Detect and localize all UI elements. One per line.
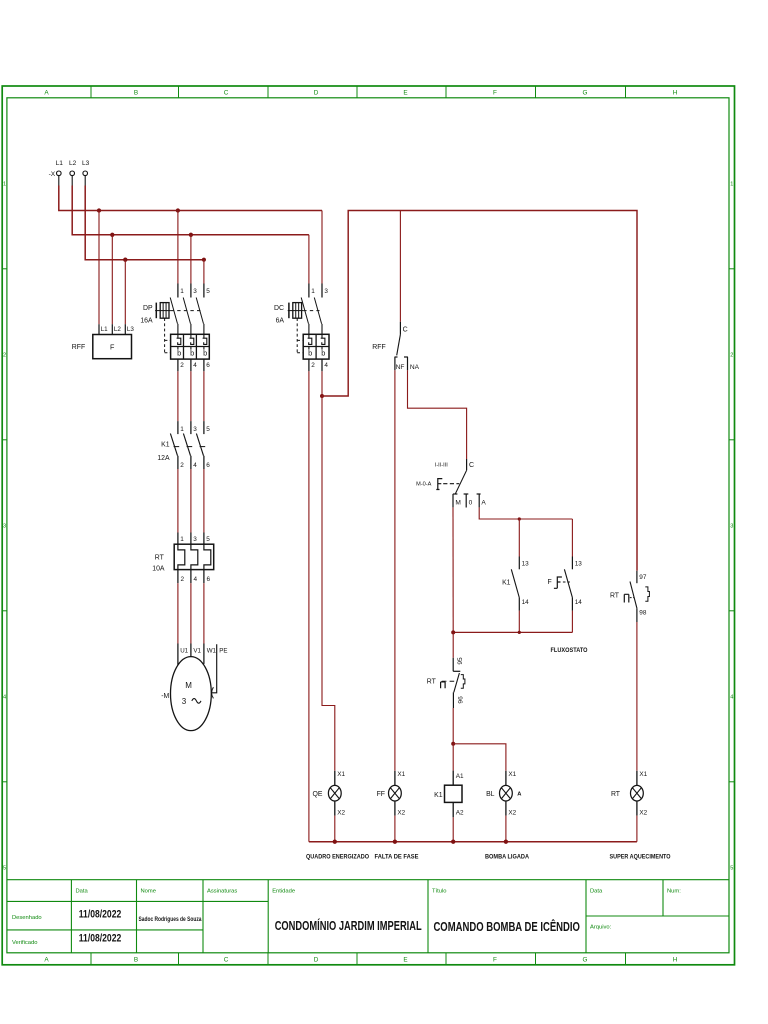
svg-text:0: 0 bbox=[469, 499, 473, 506]
svg-text:13: 13 bbox=[522, 561, 530, 568]
wire L3 drop to RFF relay bbox=[124, 260, 126, 325]
svg-text:C: C bbox=[224, 90, 229, 97]
svg-text:V1: V1 bbox=[193, 647, 201, 654]
lamp QE quadro energizado bbox=[313, 771, 346, 842]
contact RT 97-98 trip signal bbox=[624, 571, 649, 622]
svg-text:K1: K1 bbox=[502, 580, 511, 587]
svg-text:X2: X2 bbox=[508, 809, 516, 816]
label -M bbox=[161, 693, 169, 700]
lamp FF falta de fase bbox=[377, 771, 406, 842]
svg-text:3: 3 bbox=[730, 523, 733, 529]
terminal block -X labels L1 L2 L3 bbox=[49, 160, 90, 178]
label K1 contact bbox=[502, 580, 511, 587]
title block date verified bbox=[79, 933, 122, 945]
wire bottom lamp bus bbox=[309, 841, 637, 843]
contactor K1 12A main contacts bbox=[170, 421, 210, 469]
svg-text:NA: NA bbox=[410, 364, 420, 371]
svg-text:C: C bbox=[224, 957, 229, 964]
wire seal-in bus bbox=[453, 631, 572, 633]
wire L1 phase bus bbox=[59, 186, 322, 211]
svg-text:M-0-A: M-0-A bbox=[416, 481, 431, 487]
svg-text:B: B bbox=[134, 90, 138, 97]
wire to K1 coil bbox=[452, 744, 454, 771]
svg-text:b: b bbox=[203, 349, 207, 358]
svg-text:Num:: Num: bbox=[667, 888, 681, 894]
svg-text:X1: X1 bbox=[337, 771, 345, 778]
svg-text:X1: X1 bbox=[508, 771, 516, 778]
svg-text:Entidade: Entidade bbox=[272, 888, 295, 894]
label RFF contact bbox=[372, 344, 385, 351]
svg-text:b: b bbox=[321, 349, 325, 358]
wire DC pin2 return to lamp bus bbox=[308, 371, 310, 841]
junction L3-RFF bbox=[123, 258, 127, 262]
junction L1-DP bbox=[176, 208, 180, 212]
svg-text:3: 3 bbox=[324, 288, 328, 295]
svg-text:W1: W1 bbox=[207, 647, 217, 654]
svg-text:10A: 10A bbox=[152, 565, 165, 572]
svg-text:1: 1 bbox=[180, 536, 184, 543]
label I-II-III bbox=[435, 462, 448, 468]
svg-text:2: 2 bbox=[3, 352, 6, 358]
svg-text:RT: RT bbox=[611, 791, 621, 798]
wire DP out to K1 contactor bbox=[178, 371, 204, 421]
motor M1 three-phase bbox=[171, 644, 228, 731]
svg-text:11/08/2022: 11/08/2022 bbox=[79, 933, 122, 945]
wire NF to FF lamp bbox=[394, 370, 396, 771]
svg-text:14: 14 bbox=[522, 599, 530, 606]
svg-text:Verificado: Verificado bbox=[12, 940, 37, 946]
svg-text:b: b bbox=[190, 349, 194, 358]
svg-text:A1: A1 bbox=[456, 773, 464, 780]
junction L1-RFF bbox=[97, 208, 101, 212]
svg-text:-X: -X bbox=[49, 171, 56, 178]
svg-text:b: b bbox=[177, 349, 181, 358]
svg-text:M: M bbox=[185, 681, 192, 690]
svg-text:3: 3 bbox=[193, 288, 197, 295]
junction K1-14 on bus bbox=[518, 631, 521, 634]
label M-0-A bbox=[416, 481, 431, 487]
svg-text:X2: X2 bbox=[639, 809, 647, 816]
svg-text:Assinaturas: Assinaturas bbox=[207, 888, 237, 894]
svg-text:2: 2 bbox=[180, 462, 184, 469]
junction K1 coil / BL branch bbox=[451, 742, 455, 746]
svg-text:L2: L2 bbox=[114, 326, 122, 333]
svg-text:NF: NF bbox=[396, 364, 405, 371]
svg-text:4: 4 bbox=[730, 694, 733, 700]
svg-text:I-II-III: I-II-III bbox=[435, 462, 448, 468]
svg-text:BOMBA LIGADA: BOMBA LIGADA bbox=[485, 853, 529, 860]
svg-text:L3: L3 bbox=[127, 326, 135, 333]
wire K1 out to RT relay bbox=[178, 469, 204, 533]
lamp BL bomba ligada bbox=[486, 771, 517, 842]
svg-text:RFF: RFF bbox=[72, 344, 85, 351]
title block small labels bbox=[12, 888, 681, 946]
svg-text:X1: X1 bbox=[397, 771, 405, 778]
title block author name bbox=[139, 917, 203, 923]
border frame inner bbox=[7, 98, 729, 953]
svg-text:4: 4 bbox=[193, 362, 197, 369]
svg-text:CONDOMÍNIO JARDIM IMPERIAL: CONDOMÍNIO JARDIM IMPERIAL bbox=[275, 918, 422, 933]
svg-text:5: 5 bbox=[206, 536, 210, 543]
svg-text:H: H bbox=[673, 957, 678, 964]
svg-text:b: b bbox=[308, 349, 312, 358]
svg-text:11/08/2022: 11/08/2022 bbox=[79, 908, 122, 920]
svg-text:12A: 12A bbox=[157, 455, 170, 462]
wire L1 drop to DC pole 3 bbox=[321, 211, 323, 284]
svg-text:16A: 16A bbox=[140, 317, 153, 324]
junction FF on bus bbox=[393, 840, 397, 844]
svg-text:A: A bbox=[44, 90, 49, 97]
svg-text:A: A bbox=[44, 957, 49, 964]
svg-text:FF: FF bbox=[377, 791, 385, 798]
svg-text:C: C bbox=[403, 326, 408, 333]
svg-text:F: F bbox=[110, 343, 115, 352]
junction L2-DP bbox=[189, 233, 193, 237]
svg-text:-M: -M bbox=[161, 693, 169, 700]
label FLUXOSTATO bbox=[551, 647, 588, 654]
svg-text:6: 6 bbox=[207, 576, 211, 583]
wire L2 drop to RFF relay bbox=[111, 235, 113, 324]
svg-text:FLUXOSTATO: FLUXOSTATO bbox=[551, 647, 588, 654]
wire selector M to junction bbox=[452, 507, 454, 632]
svg-text:G: G bbox=[583, 957, 588, 964]
svg-text:QUADRO ENERGIZADO: QUADRO ENERGIZADO bbox=[306, 853, 369, 860]
svg-text:3: 3 bbox=[193, 426, 197, 433]
svg-text:1: 1 bbox=[730, 181, 733, 187]
svg-text:14: 14 bbox=[575, 599, 583, 606]
junction L2-RFF bbox=[110, 233, 114, 237]
terminal L1 circle bbox=[57, 171, 62, 186]
contact F fluxostato 13-14 bbox=[554, 519, 582, 632]
svg-text:H: H bbox=[673, 90, 678, 97]
svg-text:K1: K1 bbox=[434, 792, 443, 799]
label K1 12A bbox=[157, 441, 170, 461]
wire RT out to motor bbox=[178, 583, 204, 643]
svg-text:F: F bbox=[493, 957, 497, 964]
svg-text:2: 2 bbox=[180, 362, 184, 369]
svg-text:Data: Data bbox=[76, 888, 89, 894]
label DP 16A bbox=[140, 305, 153, 325]
wire BL lamp branch bbox=[453, 744, 506, 771]
svg-text:K1: K1 bbox=[161, 441, 170, 448]
svg-text:X1: X1 bbox=[639, 771, 647, 778]
svg-text:DC: DC bbox=[274, 305, 284, 312]
svg-text:5: 5 bbox=[3, 865, 6, 871]
wire RT96 down bbox=[452, 708, 454, 744]
svg-text:Desenhado: Desenhado bbox=[12, 915, 42, 921]
svg-text:Arquivo:: Arquivo: bbox=[590, 925, 612, 931]
svg-text:F: F bbox=[547, 579, 551, 586]
row header strip right bbox=[729, 181, 735, 871]
svg-text:RT: RT bbox=[427, 679, 437, 686]
wire L2 drop to DP pole 3 bbox=[190, 235, 192, 284]
svg-text:L1: L1 bbox=[56, 160, 64, 167]
svg-text:L3: L3 bbox=[82, 160, 90, 167]
svg-text:FALTA DE FASE: FALTA DE FASE bbox=[375, 853, 420, 860]
svg-text:U1: U1 bbox=[180, 647, 188, 654]
svg-text:6: 6 bbox=[206, 362, 210, 369]
svg-text:A: A bbox=[481, 499, 486, 506]
svg-text:C: C bbox=[469, 462, 474, 469]
label QUADRO ENERGIZADO bbox=[306, 853, 369, 860]
column header strip top bbox=[44, 86, 677, 98]
label SUPER AQUECIMENTO bbox=[610, 853, 671, 860]
svg-text:4: 4 bbox=[324, 362, 328, 369]
svg-text:1: 1 bbox=[311, 288, 315, 295]
circuit breaker DP 16A (3-pole motor breaker) bbox=[155, 284, 210, 372]
label F contact bbox=[547, 579, 551, 586]
wire NA to selector bbox=[408, 370, 467, 459]
svg-text:96: 96 bbox=[458, 696, 465, 704]
wire L2 drop to DC pole 1 bbox=[308, 235, 310, 284]
svg-text:X2: X2 bbox=[397, 809, 405, 816]
svg-text:5: 5 bbox=[206, 288, 210, 295]
terminal L2 circle bbox=[70, 171, 75, 186]
svg-text:5: 5 bbox=[730, 865, 733, 871]
contact K1 13-14 seal-in bbox=[511, 519, 529, 632]
wire L1 drop to DP pole 1 bbox=[177, 211, 179, 284]
svg-text:Data: Data bbox=[590, 888, 603, 894]
svg-text:L2: L2 bbox=[69, 160, 77, 167]
svg-text:95: 95 bbox=[457, 657, 464, 665]
svg-text:2: 2 bbox=[181, 576, 185, 583]
svg-text:4: 4 bbox=[194, 576, 198, 583]
terminal L3 circle bbox=[83, 171, 88, 186]
svg-text:5: 5 bbox=[206, 426, 210, 433]
junction K1 coil on bus bbox=[451, 840, 455, 844]
svg-text:4: 4 bbox=[193, 462, 197, 469]
svg-text:PE: PE bbox=[219, 647, 227, 654]
svg-text:4: 4 bbox=[3, 694, 6, 700]
svg-text:6A: 6A bbox=[276, 317, 285, 324]
label RT contact 95 bbox=[427, 679, 437, 686]
wire L3 drop to DP pole 5 bbox=[203, 260, 205, 284]
title block grid bbox=[7, 880, 729, 953]
svg-text:13: 13 bbox=[575, 561, 583, 568]
svg-text:98: 98 bbox=[639, 610, 647, 617]
svg-text:E: E bbox=[403, 90, 407, 97]
wire selector A to contacts bbox=[479, 507, 572, 519]
circuit breaker DC 6A (2-pole motor breaker) bbox=[288, 284, 329, 372]
row header strip left bbox=[2, 181, 7, 871]
svg-text:SUPER AQUECIMENTO: SUPER AQUECIMENTO bbox=[610, 853, 671, 860]
junction seal-in bus left bbox=[451, 630, 455, 634]
svg-text:2: 2 bbox=[730, 352, 733, 358]
label RT contact 97 bbox=[610, 593, 620, 600]
svg-text:RT: RT bbox=[155, 555, 165, 562]
svg-text:D: D bbox=[314, 90, 319, 97]
svg-text:F: F bbox=[493, 90, 497, 97]
svg-text:RFF: RFF bbox=[372, 344, 385, 351]
title block title bbox=[433, 919, 580, 934]
contact RT 95-96 thermal NC bbox=[441, 632, 465, 708]
svg-text:1: 1 bbox=[3, 181, 6, 187]
wire L2 phase bus bbox=[72, 186, 309, 235]
svg-text:1: 1 bbox=[180, 288, 184, 295]
svg-text:Nome: Nome bbox=[141, 888, 156, 894]
svg-text:QE: QE bbox=[313, 791, 323, 798]
wire feed drop to RFF contact bbox=[399, 211, 401, 322]
svg-text:L1: L1 bbox=[101, 326, 109, 333]
svg-text:A: A bbox=[517, 792, 522, 798]
label BOMBA LIGADA bbox=[485, 853, 529, 860]
svg-text:DP: DP bbox=[143, 305, 153, 312]
junction control feed bbox=[320, 394, 324, 398]
phase failure relay RFF box bbox=[93, 324, 135, 359]
junction L3 end bbox=[202, 258, 206, 262]
svg-text:Título: Título bbox=[432, 888, 447, 894]
contact RFF changeover C/NF/NA bbox=[395, 322, 420, 371]
junction BL on bus bbox=[504, 840, 508, 844]
wire L1 drop to RFF relay bbox=[98, 211, 100, 325]
title block entity bbox=[275, 918, 422, 933]
svg-text:3: 3 bbox=[193, 536, 197, 543]
label RT 10A bbox=[152, 555, 165, 573]
svg-text:1: 1 bbox=[180, 426, 184, 433]
svg-text:B: B bbox=[134, 957, 138, 964]
thermal overload relay RT 10A bbox=[174, 533, 214, 584]
svg-text:G: G bbox=[583, 90, 588, 97]
coil K1 A1-A2 bbox=[445, 771, 464, 842]
label DC 6A bbox=[274, 305, 284, 325]
wire QE lamp branch bbox=[322, 396, 335, 771]
lamp BL type mark bbox=[517, 792, 522, 798]
svg-text:COMANDO BOMBA DE ICÊNDIO: COMANDO BOMBA DE ICÊNDIO bbox=[433, 919, 580, 934]
junction QE on bus bbox=[333, 840, 337, 844]
lamp RT super aquecimento bbox=[611, 771, 648, 842]
label K1 coil bbox=[434, 792, 443, 799]
svg-text:M: M bbox=[455, 499, 461, 506]
selector switch M-0-A bbox=[436, 459, 486, 508]
wire L3 phase bus bbox=[85, 186, 204, 260]
svg-text:E: E bbox=[403, 957, 407, 964]
wire control feed riser and top rail bbox=[322, 211, 637, 571]
svg-text:RT: RT bbox=[610, 593, 620, 600]
svg-text:X2: X2 bbox=[337, 809, 345, 816]
label RFF bbox=[72, 344, 85, 351]
svg-text:3: 3 bbox=[3, 523, 6, 529]
svg-text:6: 6 bbox=[206, 462, 210, 469]
svg-text:3: 3 bbox=[182, 697, 187, 706]
svg-text:2: 2 bbox=[311, 362, 315, 369]
label FALTA DE FASE bbox=[375, 853, 420, 860]
svg-text:D: D bbox=[314, 957, 319, 964]
svg-text:Sadoc Rodrigues de Souza: Sadoc Rodrigues de Souza bbox=[139, 917, 203, 923]
svg-text:BL: BL bbox=[486, 791, 495, 798]
title block date drawn bbox=[79, 908, 122, 920]
wire RT98 to RT lamp bbox=[636, 622, 638, 771]
svg-text:97: 97 bbox=[639, 574, 647, 581]
wire DC pin4 to control feed bbox=[321, 371, 323, 396]
column header strip bottom bbox=[44, 953, 677, 965]
junction A-branch to K1 contact bbox=[518, 517, 521, 520]
svg-text:A2: A2 bbox=[456, 809, 464, 816]
